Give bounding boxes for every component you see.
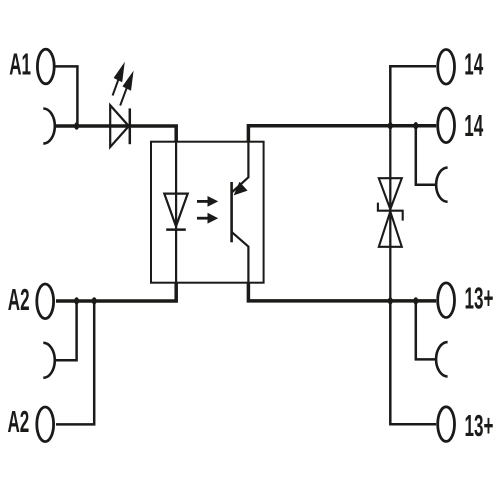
- svg-text:13+: 13+: [465, 409, 494, 444]
- svg-text:A1: A1: [9, 47, 31, 82]
- svg-text:14: 14: [464, 109, 483, 144]
- svg-text:A2: A2: [8, 283, 30, 318]
- svg-text:A2: A2: [8, 405, 30, 440]
- svg-text:13+: 13+: [465, 281, 494, 316]
- svg-text:14: 14: [464, 47, 483, 82]
